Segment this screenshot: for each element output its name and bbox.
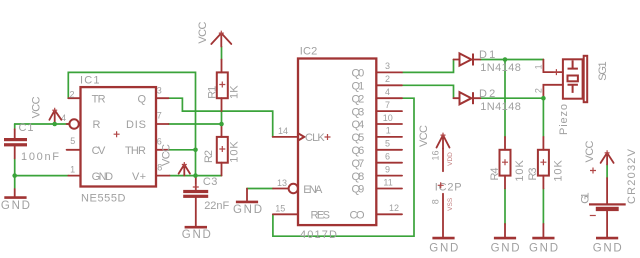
svg-text:Piezo: Piezo [558,104,570,135]
svg-text:7: 7 [157,111,162,121]
ground GND at C3 [182,227,211,241]
resistor R4 10K [489,137,526,189]
resistor R3 10K [527,137,564,189]
svg-text:22nF: 22nF [204,200,229,212]
svg-text:GND: GND [182,229,211,241]
svg-text:VCC: VCC [160,144,172,166]
wire THR to vertical [169,149,196,151]
supply VCC at 555 pin8 [160,144,190,176]
svg-text:4: 4 [61,113,66,123]
svg-text:Q: Q [137,93,146,105]
svg-text:Q9: Q9 [352,184,365,196]
svg-text:Q4: Q4 [352,119,365,131]
wire Q0 to D1 [402,60,454,73]
svg-text:IC2: IC2 [300,46,318,58]
pin 4 R bubble [61,113,79,129]
pin 15 RES stub [273,203,298,214]
wire net TR loop from pin2 over top to THR/C3 [68,72,195,175]
wire Q1 to D2 [402,85,454,98]
svg-text:8: 8 [431,199,441,204]
svg-text:C1: C1 [19,122,34,134]
svg-text:CO: CO [350,210,365,222]
wire C1 bottom to 555 GND pin1 [15,159,69,190]
svg-text:1N4148: 1N4148 [480,62,521,74]
svg-text:11: 11 [383,177,392,187]
wire D1 node down to R4 top [504,60,506,137]
svg-text:Q0: Q0 [352,68,365,80]
svg-text:6: 6 [385,152,390,162]
ground GND at R3 [529,224,558,255]
svg-text:1N4148: 1N4148 [480,101,521,113]
svg-text:1K: 1K [228,85,240,99]
pin 10 Q4 stub [376,113,402,124]
pin 3 Q stub [156,85,169,98]
wire RES to Q2 loop [273,98,414,236]
svg-text:2: 2 [533,88,543,93]
wire R3 bottom to GND [542,189,544,224]
svg-text:R2: R2 [203,150,215,163]
IC U1 timer IC1 NE555D body [80,75,156,205]
pin 11 Q9 stub [376,177,402,188]
svg-text:GND: GND [92,171,114,183]
pin 3 Q0 stub [376,61,402,72]
junction node VCC at pin4 [52,122,57,127]
svg-text:16: 16 [431,150,441,160]
wire ENA to GND [247,188,273,190]
pin 4 Q2 stub [376,87,402,98]
wire G1 plus to VCC [606,165,608,179]
svg-text:VCC: VCC [418,125,430,147]
svg-text:10: 10 [383,113,393,123]
svg-text:VCC: VCC [31,96,43,118]
svg-text:9: 9 [385,164,390,174]
ground GND at IC2P [429,238,458,254]
wire R1 top to VCC [221,47,223,60]
pin 5 Q6 stub [376,139,402,150]
svg-text:IC2P: IC2P [435,181,462,193]
svg-text:14: 14 [278,126,288,136]
svg-text:12: 12 [389,203,399,213]
wire V+ pin8 to R2 bottom [170,175,222,177]
svg-text:VCC: VCC [584,140,596,162]
svg-text:15: 15 [275,203,285,213]
wire VCC row to pin4 bubble [15,123,69,125]
svg-text:Q5: Q5 [352,132,365,144]
svg-text:4017D: 4017D [300,229,337,241]
svg-text:VDD: VDD [447,152,454,166]
wire D2 cathode to piezo pin2 [480,97,543,99]
svg-text:NE555D: NE555D [81,193,126,205]
svg-text:C3: C3 [203,176,218,188]
pin 5 CV stub [67,136,81,150]
pin 6 Q7 stub [376,152,402,163]
svg-text:IC1: IC1 [80,75,100,87]
svg-text:TR: TR [92,93,106,105]
junction node C3 top [193,173,198,178]
ground GND at ENA [233,189,262,217]
wire R4 bottom to GND [504,189,506,224]
pin 7 Q3 stub [376,100,402,111]
pin 6 THR stub [156,137,169,150]
svg-text:VSS: VSS [447,197,454,211]
wire Q output to CLK [169,98,273,137]
junction node C1/GND [12,173,17,178]
diode D2 1N4148 [454,88,521,113]
svg-text:R: R [93,119,101,131]
svg-text:4: 4 [385,87,390,97]
pin 12 CO stub [376,203,402,214]
svg-text:Q7: Q7 [352,158,365,170]
svg-text:7: 7 [385,100,390,110]
svg-text:Q8: Q8 [352,171,365,183]
resistor R1 1K [206,60,240,112]
ground GND at C1 [1,189,30,212]
wire D1 cathode to piezo pin1 [480,59,543,61]
junction node THR [193,148,198,153]
svg-text:V+: V+ [132,171,146,183]
svg-text:G1: G1 [580,192,592,203]
capacitor C3 22nF [183,176,229,226]
pin 7 DIS stub [156,111,169,124]
pin 2 TR stub [68,89,80,99]
svg-text:RES: RES [311,210,331,222]
junction node D1/R4 [503,57,508,62]
svg-text:GND: GND [529,243,558,255]
pin 8 V+ stub [156,162,170,175]
ground GND at G1 [593,238,622,254]
svg-text:5: 5 [385,139,390,149]
resistor R2 10K [203,124,240,176]
svg-text:10K: 10K [553,159,565,181]
svg-text:1: 1 [70,165,75,175]
svg-text:R3: R3 [527,168,539,181]
svg-text:100nF: 100nF [21,151,59,163]
capacitor C1 100nF [4,122,59,163]
pin 1 GND stub [68,165,80,176]
wire R1 bottom lead [221,111,223,124]
svg-text:ENA: ENA [303,184,323,196]
svg-text:Q1: Q1 [352,81,365,93]
svg-text:DIS: DIS [126,119,146,131]
supply VCC at R1 [197,22,231,47]
svg-text:Q3: Q3 [352,106,365,118]
svg-text:Q6: Q6 [352,145,365,157]
battery G1 CR2032V [580,140,639,236]
svg-text:2: 2 [69,89,74,99]
pin 9 Q8 stub [376,164,402,175]
svg-text:3: 3 [157,85,162,95]
pin 2 Q1 stub [376,74,402,85]
svg-text:GND: GND [233,204,262,216]
junction node R1/R2/DIS [219,122,224,127]
svg-text:CV: CV [92,145,106,157]
svg-text:1: 1 [386,126,391,136]
diode D1 1N4148 [454,49,521,74]
svg-text:13: 13 [277,178,287,188]
svg-text:10K: 10K [514,159,526,181]
svg-text:SG1: SG1 [597,61,609,80]
pin 13 ENA bubble [273,178,298,193]
junction node piezo pin2 / R3 [541,96,546,101]
svg-text:1: 1 [533,64,543,69]
svg-text:R4: R4 [489,168,501,181]
svg-text:Q2: Q2 [352,93,365,105]
svg-text:2: 2 [385,74,390,84]
piezo SG1 [533,56,609,135]
pin 1 Q5 stub [376,126,402,137]
wire DIS to R1/R2 junction [169,123,222,125]
svg-text:GND: GND [491,243,520,255]
supply VCC at pin4 [31,96,62,124]
svg-text:CLK: CLK [305,132,325,144]
svg-text:R1: R1 [206,86,218,99]
ground GND at R4 [491,224,520,255]
svg-text:GND: GND [429,243,458,255]
svg-text:3: 3 [385,61,390,71]
pin 14 CLK stub [273,126,298,137]
svg-text:5: 5 [70,136,75,146]
svg-text:10K: 10K [228,141,240,163]
svg-text:CR2032V: CR2032V [626,148,638,204]
svg-text:GND: GND [593,243,622,255]
svg-text:THR: THR [125,145,146,157]
IC2 4017D body [298,46,376,241]
wire piezo node down to R3 top [542,98,544,137]
svg-text:VCC: VCC [197,22,209,44]
power part IC2P [418,125,462,237]
svg-text:GND: GND [1,200,30,212]
